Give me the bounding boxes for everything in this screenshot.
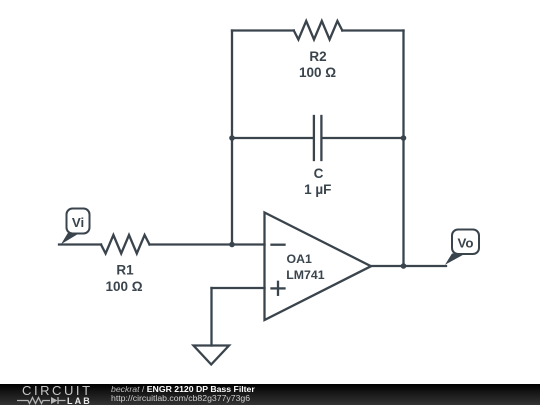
R1 name label bbox=[116, 263, 134, 278]
wire capacitor right lead bbox=[322, 137, 403, 139]
svg-text:Vi: Vi bbox=[72, 215, 84, 230]
footer logo LAB bbox=[67, 397, 92, 405]
junction: inverting input node bbox=[229, 242, 235, 248]
svg-text:R1: R1 bbox=[116, 263, 134, 278]
svg-text:100 Ω: 100 Ω bbox=[105, 279, 142, 294]
wire top-left segment bbox=[232, 29, 294, 31]
R2 name label bbox=[309, 49, 326, 64]
ground bbox=[194, 346, 230, 365]
svg-text:OA1: OA1 bbox=[287, 252, 312, 266]
wire non-inverting input horizontal bbox=[212, 287, 265, 289]
footer logo CIRCUIT bbox=[22, 386, 93, 396]
R2 value label bbox=[299, 65, 336, 80]
footer credit line bbox=[111, 385, 255, 394]
R1 value label bbox=[105, 279, 142, 294]
wire to ground bbox=[210, 288, 212, 346]
svg-text:100 Ω: 100 Ω bbox=[299, 65, 336, 80]
junction: capacitor right node bbox=[401, 135, 407, 141]
footer url line bbox=[111, 394, 250, 403]
junction: output node bbox=[401, 263, 407, 269]
resistor R1 bbox=[101, 235, 150, 254]
wire right vertical bbox=[402, 31, 404, 267]
wire op-amp output bbox=[371, 265, 446, 267]
svg-text:R2: R2 bbox=[309, 49, 326, 64]
wire from Vi to R1 bbox=[59, 243, 101, 245]
svg-text:LM741: LM741 bbox=[286, 268, 324, 282]
svg-text:C: C bbox=[314, 166, 324, 181]
C name label bbox=[314, 166, 324, 181]
wire capacitor left lead bbox=[232, 137, 313, 139]
wire left vertical bbox=[231, 31, 233, 245]
capacitor C bbox=[314, 116, 322, 160]
footer bar bbox=[0, 384, 540, 405]
op-amp OA1 bbox=[265, 213, 372, 321]
resistor R2 bbox=[294, 21, 343, 40]
svg-text:Vo: Vo bbox=[457, 235, 473, 250]
footer logo schematic glyph bbox=[17, 396, 69, 405]
svg-text:1 µF: 1 µF bbox=[304, 182, 331, 197]
wire top-right segment bbox=[342, 29, 403, 31]
net flag Vi bbox=[61, 209, 90, 245]
junction: capacitor left node bbox=[229, 135, 235, 141]
OA1 name label bbox=[287, 252, 312, 266]
C value label bbox=[304, 182, 331, 197]
wire R1 to inverting input bbox=[150, 243, 265, 245]
OA1 model label bbox=[286, 268, 324, 282]
net flag Vo bbox=[445, 230, 479, 265]
